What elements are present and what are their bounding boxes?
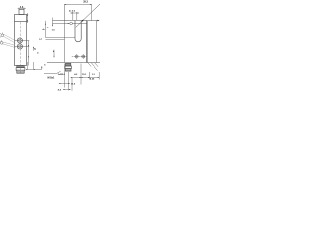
extension line y37.5 bbox=[46, 37, 76, 39]
connector nut bbox=[16, 68, 25, 71]
bottom dim row4 bbox=[63, 89, 71, 91]
small dim vline with arrow bbox=[33, 47, 35, 51]
upper lens circle bbox=[17, 38, 22, 43]
svg-text:8.4: 8.4 bbox=[58, 89, 62, 92]
U bump bbox=[75, 21, 81, 42]
wall front edge bbox=[87, 21, 89, 63]
svg-text:2x 2.6: 2x 2.6 bbox=[69, 11, 76, 13]
LED detail lower-left bbox=[0, 40, 3, 44]
side view: long top line with arrow bbox=[53, 20, 99, 22]
side view left extension vline bbox=[64, 4, 66, 63]
window-height dim at body right bbox=[27, 13, 29, 23]
svg-text:4: 4 bbox=[37, 52, 39, 55]
connector collar bbox=[17, 66, 24, 68]
extension line y39.5 bbox=[46, 39, 65, 41]
svg-text:4: 4 bbox=[53, 50, 55, 53]
top dimension line bbox=[18, 8, 26, 10]
front view body bbox=[15, 15, 27, 66]
leader line lower bbox=[3, 42, 16, 48]
side connector thread bbox=[65, 69, 71, 72]
svg-text:1.3: 1.3 bbox=[92, 74, 96, 76]
side connector collar bbox=[65, 63, 70, 66]
lens axes dim line bbox=[28, 41, 30, 66]
beam line diagonal bbox=[76, 4, 100, 27]
mounting holes center line bbox=[72, 56, 87, 58]
svg-text:8: 8 bbox=[41, 67, 43, 70]
mounting hole left bbox=[75, 55, 78, 58]
sensor back edge bbox=[86, 21, 88, 63]
mounting surface line bbox=[47, 62, 100, 64]
svg-text:5.7: 5.7 bbox=[39, 39, 43, 41]
svg-text:1.5: 1.5 bbox=[52, 30, 56, 32]
center line bbox=[20, 22, 22, 73]
lower lens circle bbox=[17, 44, 22, 49]
vertical dim line x45.5 bbox=[45, 21, 47, 38]
svg-text:13.5: 13.5 bbox=[71, 83, 76, 85]
svg-text:M 8x1: M 8x1 bbox=[48, 76, 56, 79]
svg-text:4.3: 4.3 bbox=[20, 6, 24, 9]
side connector nut bbox=[65, 66, 71, 69]
bottom dim ext lines bbox=[65, 64, 100, 91]
svg-text:4.25: 4.25 bbox=[90, 77, 95, 80]
svg-text:5: 5 bbox=[44, 65, 46, 67]
M8x1 leader bbox=[44, 71, 61, 73]
window divider line bbox=[15, 21, 27, 23]
vertical dim line x52.5 bbox=[52, 18, 54, 27]
leader line upper bbox=[3, 34, 15, 43]
lower lens axis bbox=[15, 46, 30, 48]
mounting hole right bbox=[82, 55, 85, 58]
connector thread bbox=[17, 70, 24, 73]
svg-text:5: 5 bbox=[34, 47, 36, 51]
svg-text:4.3: 4.3 bbox=[74, 73, 78, 76]
hatching bbox=[88, 63, 98, 71]
bottom dim row2 bbox=[71, 77, 100, 79]
LED detail upper-left bbox=[0, 33, 4, 38]
connector dim ext lines bbox=[26, 62, 42, 70]
top box (teach button) bbox=[19, 10, 24, 15]
wall back edge bbox=[96, 21, 98, 63]
upper lens axis bbox=[15, 40, 30, 42]
svg-text:15.1: 15.1 bbox=[82, 74, 87, 76]
small tick bbox=[47, 27, 48, 29]
svg-text:2xM2.6: 2xM2.6 bbox=[58, 74, 66, 76]
dim ext right bbox=[91, 4, 93, 21]
optical axis line bbox=[53, 23, 88, 25]
vertical dim line x54 lower bbox=[53, 50, 55, 58]
lens circle side view bbox=[70, 22, 73, 25]
svg-text:29.3: 29.3 bbox=[83, 1, 88, 4]
bottom dim row3 bbox=[59, 83, 70, 85]
